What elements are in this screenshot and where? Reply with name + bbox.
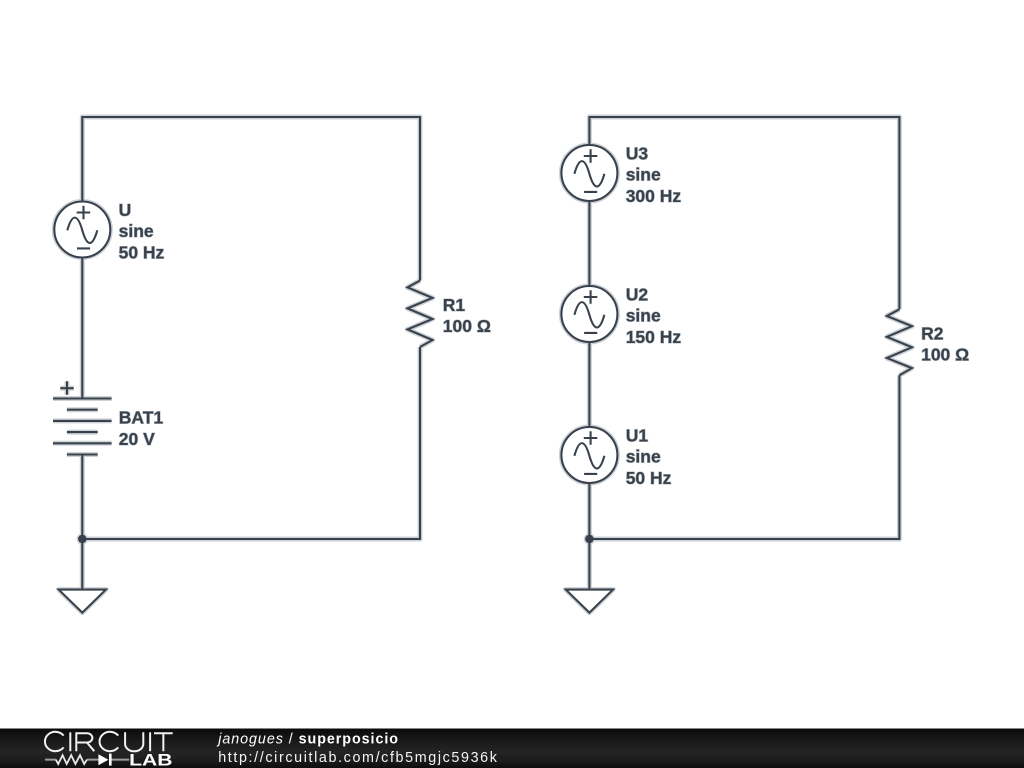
svg-text:50 Hz: 50 Hz — [626, 468, 672, 488]
svg-text:http://circuitlab.com/cfb5mgjc: http://circuitlab.com/cfb5mgjc5936k — [218, 750, 498, 766]
svg-text:50 Hz: 50 Hz — [119, 243, 165, 263]
svg-text:R2: R2 — [921, 323, 944, 343]
svg-text:100 Ω: 100 Ω — [921, 345, 969, 365]
svg-text:sine: sine — [626, 306, 661, 326]
svg-text:U3: U3 — [626, 143, 649, 163]
svg-text:300 Hz: 300 Hz — [626, 186, 682, 206]
svg-text:sine: sine — [626, 165, 661, 185]
svg-text:100 Ω: 100 Ω — [443, 316, 491, 336]
svg-text:20 V: 20 V — [119, 429, 155, 449]
svg-text:150 Hz: 150 Hz — [626, 327, 682, 347]
svg-text:U: U — [119, 200, 132, 220]
svg-text:BAT1: BAT1 — [119, 408, 164, 428]
svg-text:R1: R1 — [443, 295, 466, 315]
svg-text:U2: U2 — [626, 284, 649, 304]
svg-text:LAB: LAB — [129, 752, 172, 768]
svg-text:sine: sine — [119, 221, 154, 241]
svg-text:U1: U1 — [626, 425, 649, 445]
svg-text:sine: sine — [626, 447, 661, 467]
svg-text:janogues / superposicio: janogues / superposicio — [216, 731, 399, 747]
